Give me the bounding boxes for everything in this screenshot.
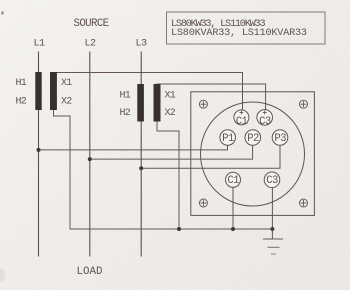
svg-text:L1: L1	[34, 39, 46, 50]
svg-text:L3: L3	[136, 39, 148, 50]
scan artifact left edge	[2, 12, 4, 15]
scan artifact bottom-left smudge	[0, 268, 5, 282]
wire phase L2	[89, 52, 91, 256]
transformer CT1 primary bar H	[35, 72, 41, 110]
junction node L2/bus2	[88, 157, 92, 161]
terminal top C3	[257, 110, 273, 128]
wire CT2-X2 down to common bus	[157, 122, 179, 230]
terminal P3	[272, 130, 288, 146]
ground symbol	[264, 239, 283, 254]
svg-text:L2: L2	[85, 39, 97, 50]
svg-text:X2: X2	[61, 97, 72, 108]
title box	[167, 12, 326, 44]
wire ground stem	[271, 229, 273, 239]
terminal bottom C3	[264, 172, 280, 188]
screw top-right	[300, 100, 308, 108]
meter face circle	[201, 102, 305, 206]
svg-text:P1: P1	[222, 133, 234, 145]
wire bottom C1 drop	[232, 187, 234, 229]
wire voltage bus L3 to P3	[141, 145, 280, 168]
wire CT2-X1 to meter top C3	[157, 84, 266, 110]
junction node X2 bus	[177, 227, 181, 231]
svg-text:X1: X1	[61, 78, 72, 89]
svg-text:X2: X2	[165, 108, 176, 119]
terminal P1	[220, 130, 236, 146]
svg-text:X1: X1	[165, 91, 176, 102]
transformer CT2 secondary bar X	[154, 84, 161, 122]
screw bottom-right	[300, 199, 308, 207]
wire CT1-X2 down to common bus	[54, 110, 71, 229]
svg-text:P3: P3	[274, 133, 286, 145]
svg-text:P2: P2	[247, 133, 259, 145]
wire CT1-X1 to meter top C1	[54, 73, 243, 111]
transformer CT2 primary bar H	[137, 84, 144, 122]
svg-text:C3: C3	[259, 116, 271, 128]
svg-text:H2: H2	[16, 97, 27, 108]
terminal bottom C1	[226, 172, 241, 187]
wire phase L3	[140, 52, 142, 256]
transformer CT1 secondary bar X	[50, 72, 57, 110]
svg-text:H1: H1	[120, 91, 131, 102]
svg-text:H2: H2	[120, 108, 131, 119]
svg-text:H1: H1	[16, 78, 27, 89]
wire bottom C3 drop	[271, 187, 273, 229]
terminal P2	[245, 130, 261, 146]
junction node C3/ground	[270, 227, 274, 231]
wire voltage bus L2 to P2	[90, 145, 253, 159]
terminal top C1	[234, 110, 249, 128]
junction node C1 bus	[231, 227, 235, 231]
svg-text:C1: C1	[236, 116, 248, 128]
wire voltage bus L1 to P1	[39, 145, 228, 150]
meter panel plate	[191, 92, 315, 216]
junction node L3/bus3	[139, 166, 143, 170]
screw bottom-left	[199, 199, 207, 207]
svg-text:LOAD: LOAD	[77, 266, 103, 278]
svg-text:LS80KVAR33, LS110KVAR33: LS80KVAR33, LS110KVAR33	[171, 28, 307, 39]
svg-text:C3: C3	[266, 175, 278, 187]
junction node L1/bus1	[37, 148, 41, 152]
svg-text:SOURCE: SOURCE	[74, 18, 109, 30]
screw top-left	[199, 100, 207, 108]
svg-text:C1: C1	[227, 175, 239, 187]
wire common bottom bus to ground	[70, 228, 272, 230]
wire phase L1	[38, 52, 40, 256]
